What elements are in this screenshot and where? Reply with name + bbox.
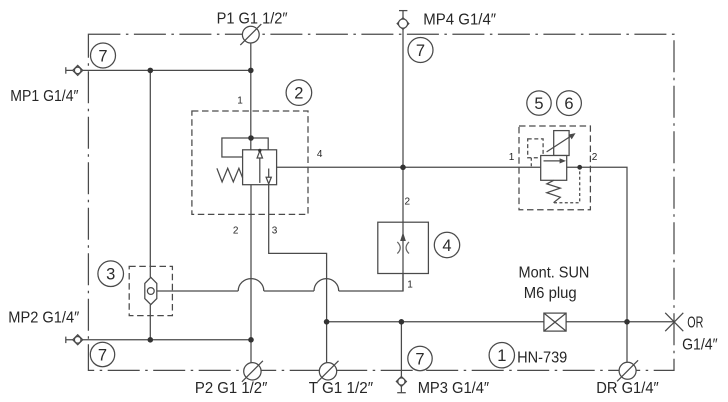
svg-text:6: 6 [564, 95, 573, 113]
svg-text:T G1 1/2″: T G1 1/2″ [309, 380, 374, 397]
svg-text:HN-739: HN-739 [517, 349, 567, 366]
svg-text:5: 5 [534, 95, 543, 113]
svg-text:3: 3 [106, 266, 115, 284]
svg-text:4: 4 [317, 149, 323, 160]
svg-text:7: 7 [415, 351, 424, 369]
svg-text:2: 2 [592, 152, 598, 163]
svg-text:DR G1/4″: DR G1/4″ [596, 380, 659, 397]
svg-text:4: 4 [442, 237, 451, 255]
svg-text:MP2 G1/4″: MP2 G1/4″ [8, 310, 79, 327]
svg-text:MP4 G1/4″: MP4 G1/4″ [423, 11, 496, 28]
svg-text:P1 G1 1/2″: P1 G1 1/2″ [217, 10, 288, 27]
svg-text:7: 7 [98, 48, 107, 66]
svg-text:1: 1 [237, 95, 243, 106]
svg-text:P2 G1 1/2″: P2 G1 1/2″ [195, 380, 268, 397]
svg-text:1: 1 [509, 152, 515, 163]
svg-text:G1/4″: G1/4″ [682, 337, 718, 354]
svg-text:2: 2 [405, 197, 411, 208]
svg-text:Mont. SUN: Mont. SUN [519, 264, 590, 281]
svg-text:1: 1 [497, 347, 506, 365]
svg-text:2: 2 [233, 225, 239, 236]
svg-text:7: 7 [98, 347, 107, 365]
svg-text:M6 plug: M6 plug [524, 285, 577, 302]
svg-text:1: 1 [407, 279, 413, 290]
svg-text:OR: OR [687, 315, 703, 332]
svg-text:MP1 G1/4″: MP1 G1/4″ [10, 88, 78, 105]
svg-text:2: 2 [294, 85, 303, 103]
svg-text:7: 7 [416, 42, 425, 60]
svg-text:MP3 G1/4″: MP3 G1/4″ [418, 380, 490, 397]
svg-text:3: 3 [272, 225, 278, 236]
